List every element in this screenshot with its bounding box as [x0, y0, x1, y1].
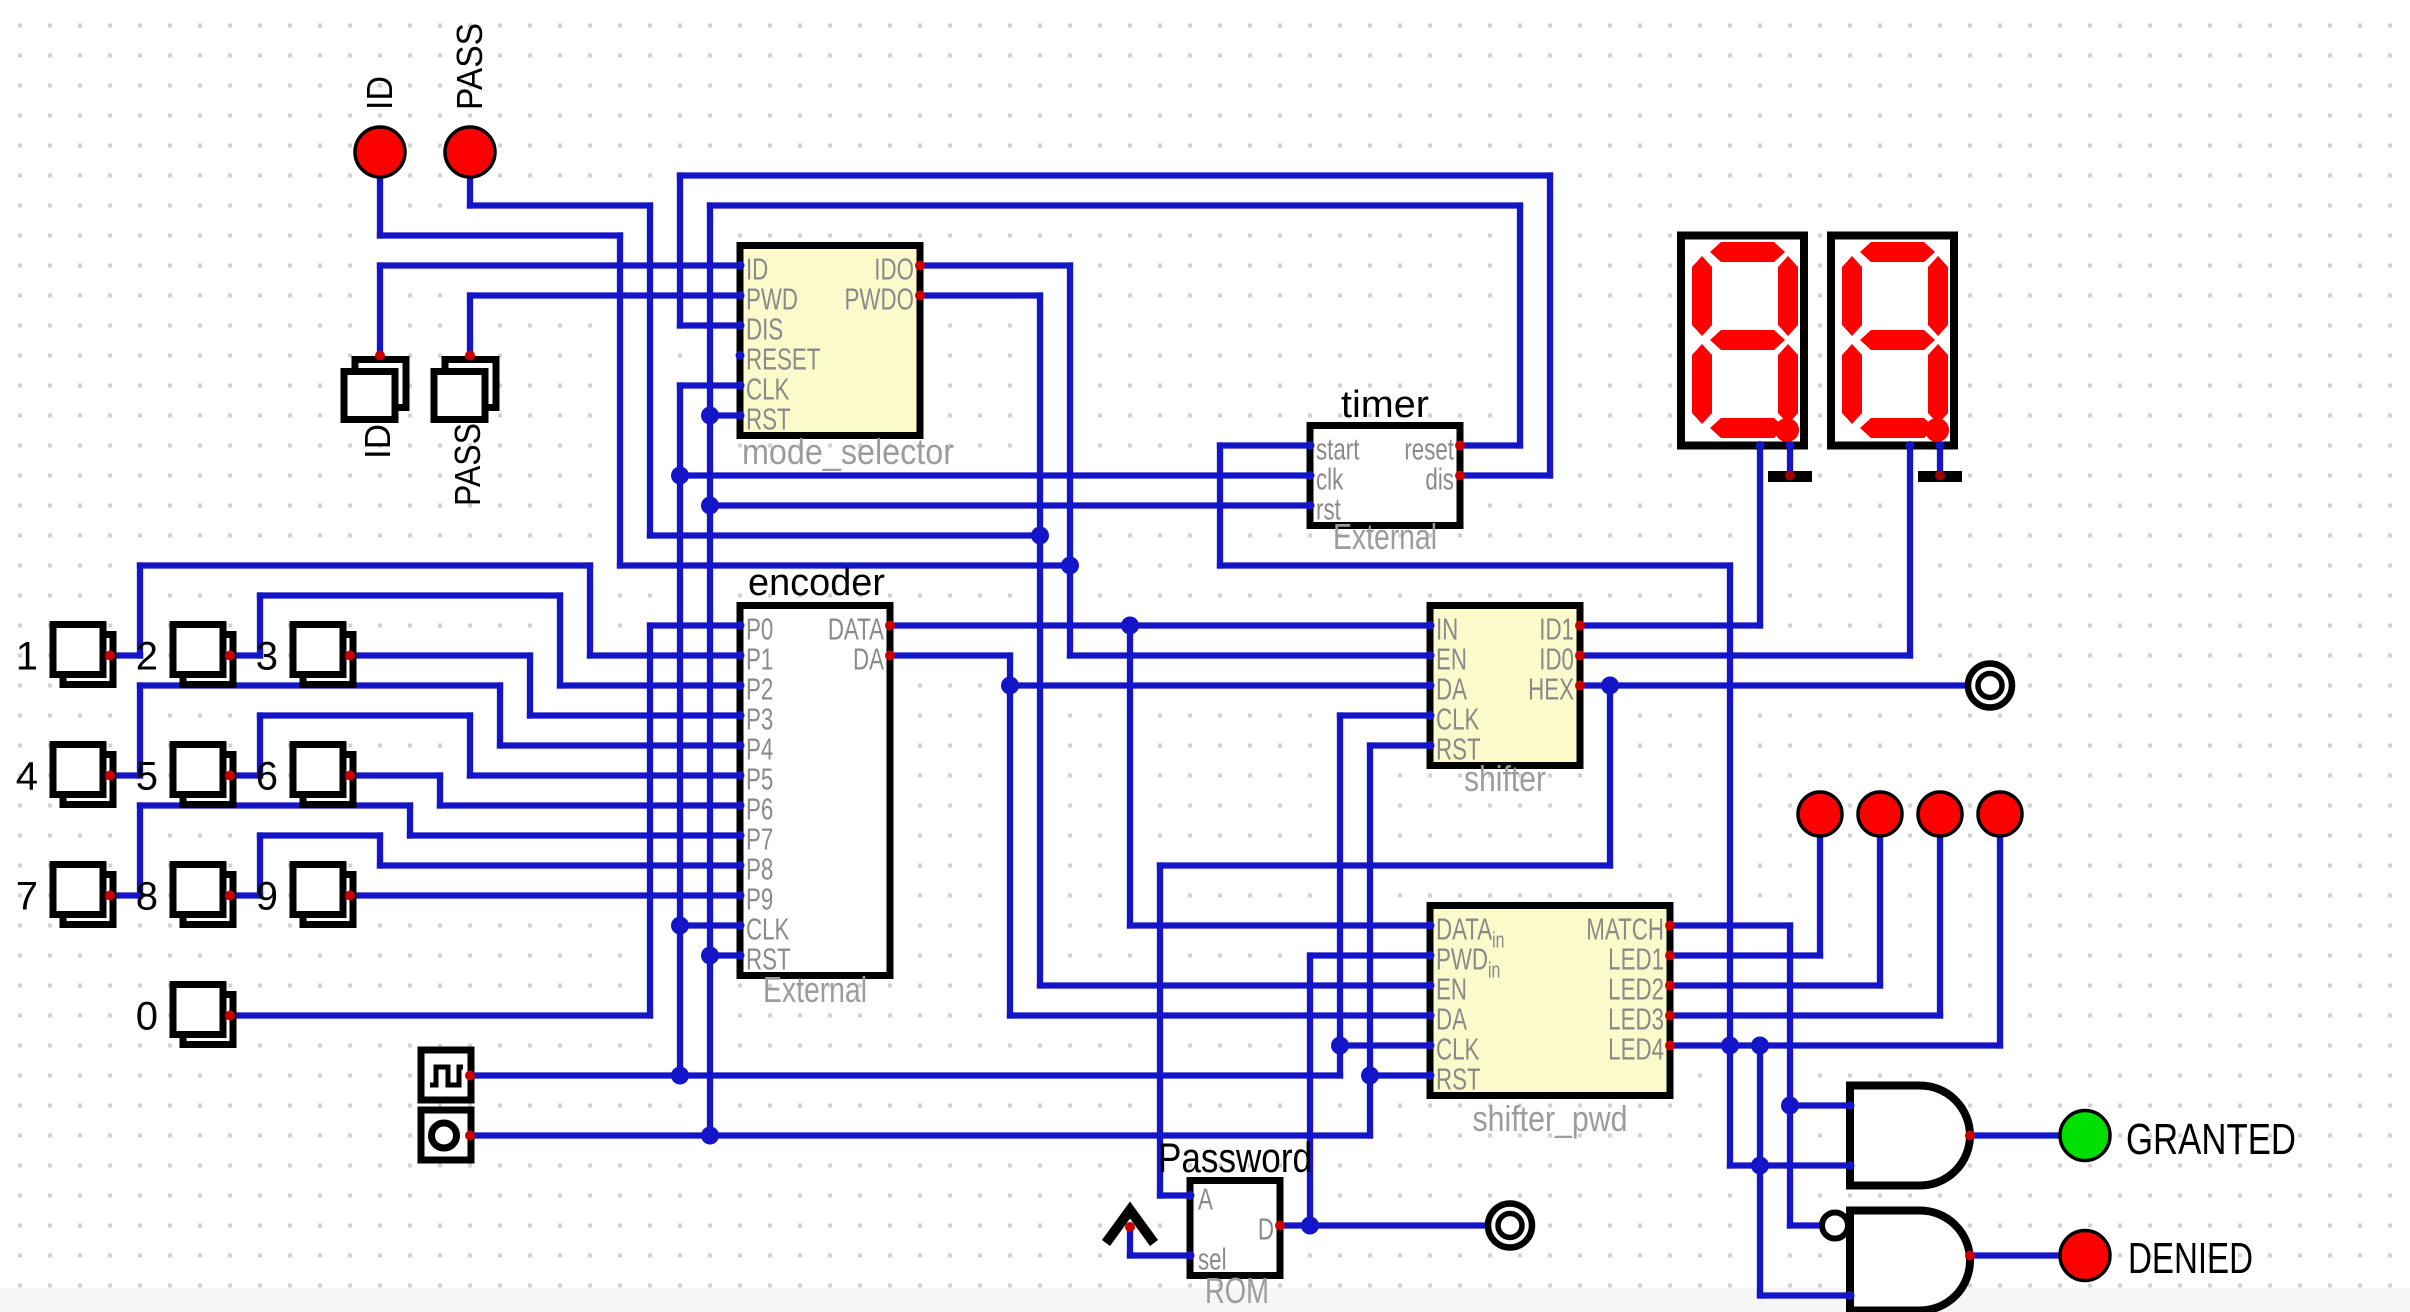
svg-text:6: 6 — [256, 755, 278, 799]
wire net shifter.ID1 to 7seg1 — [1580, 446, 1760, 626]
probe HEX — [1968, 664, 2012, 708]
wire net LED3 — [1670, 838, 1940, 1115]
wire net CLK (clock to all CLK pins) — [470, 386, 1430, 1085]
reset button input O — [421, 1110, 471, 1160]
svg-text:timer: timer — [1341, 384, 1429, 426]
wire net ROM.D to shifter_pwd.PWDin and probe — [1280, 956, 1486, 1226]
clock input — [421, 1050, 471, 1100]
button 1 — [53, 625, 113, 685]
button 5 — [173, 745, 233, 805]
wire net button 8 to encoder.P8 — [230, 836, 740, 896]
block shifter_pwd — [1430, 906, 1670, 1096]
wire net LED1 — [1670, 838, 1820, 956]
wire net button 7 to encoder.P7 — [110, 806, 740, 896]
svg-text:External: External — [1333, 516, 1437, 557]
LED1 lamp — [1798, 792, 1842, 836]
svg-text:PWDO: PWDO — [845, 282, 914, 316]
svg-text:DA: DA — [853, 642, 884, 676]
button 8 — [173, 865, 233, 925]
AND gate U2 (DENIED, inverted input) — [1850, 1211, 1970, 1311]
button 0 — [173, 985, 233, 1045]
svg-text:shifter_pwd: shifter_pwd — [1473, 1098, 1628, 1139]
block shifter — [1430, 606, 1580, 766]
wire net gate outputs to GRANTED/DENIED lamps — [1970, 1136, 2060, 1256]
VDD supply arrow — [1106, 1210, 1154, 1243]
LED ID output lamp — [355, 127, 405, 177]
wire net IDO / ID lamp — [380, 176, 1430, 656]
block timer (External) — [1310, 426, 1460, 526]
svg-text:9: 9 — [256, 875, 278, 919]
button 4 — [53, 745, 113, 805]
button 3 — [293, 625, 353, 685]
wire net button PASS to mode_selector.PWD — [470, 296, 740, 356]
svg-text:External: External — [763, 969, 867, 1010]
wire net 7seg decimal points to ground — [1790, 446, 1940, 472]
svg-text:GRANTED: GRANTED — [2126, 1115, 2296, 1164]
svg-text:PASS: PASS — [447, 423, 488, 506]
wire net shifter.HEX to probe and ROM.A — [1160, 677, 1966, 1196]
LED2 lamp — [1858, 792, 1902, 836]
button PASS — [434, 360, 496, 420]
button 6 — [293, 745, 353, 805]
wire net DIS to timer.dis — [680, 176, 1550, 476]
svg-text:ID: ID — [357, 424, 398, 459]
LED GRANTED — [2060, 1111, 2110, 1161]
svg-text:mode_selector: mode_selector — [742, 431, 954, 472]
svg-text:1: 1 — [16, 635, 38, 679]
svg-text:A: A — [1198, 1182, 1213, 1216]
AND gate U1 (GRANTED) — [1850, 1086, 1970, 1186]
svg-text:3: 3 — [256, 635, 278, 679]
LED PASS output lamp — [445, 127, 495, 177]
wire net shifter.ID0 to 7seg2 — [1580, 446, 1910, 656]
wire net button 4 to encoder.P4 — [110, 686, 740, 776]
svg-text:0: 0 — [136, 995, 158, 1039]
wire net button 1 to encoder.P1 — [110, 566, 740, 656]
block encoder (External) — [740, 606, 890, 976]
7-segment display 2 — [1831, 236, 1954, 446]
button 7 — [53, 865, 113, 925]
wire net button 2 to encoder.P2 — [230, 596, 740, 686]
wire net RESET (O button to all RST pins) — [470, 206, 1520, 1145]
wire net button 3 to encoder.P3 — [350, 656, 740, 716]
wire net button 9 to encoder.P9 — [350, 892, 740, 898]
wire net button 0 to encoder.P0 — [230, 626, 740, 1016]
ground symbol — [1918, 471, 1962, 482]
svg-text:shifter: shifter — [1464, 758, 1546, 799]
svg-text:ID: ID — [359, 76, 400, 110]
svg-text:encoder: encoder — [748, 562, 885, 604]
svg-text:D: D — [1258, 1212, 1274, 1246]
svg-text:LED4: LED4 — [1608, 1032, 1664, 1066]
wire net timer.start / LED4 / gate inputs — [1220, 446, 2000, 1296]
svg-text:DENIED: DENIED — [2128, 1234, 2253, 1283]
probe D — [1488, 1204, 1532, 1248]
wire net encoder.DATA to shifter.IN and shifter_pwd.DATAin — [890, 626, 1430, 926]
svg-text:5: 5 — [136, 755, 158, 799]
wire net VDD to ROM.sel — [1130, 1217, 1319, 1256]
wire net button ID to mode_selector.ID — [380, 266, 740, 356]
wire net button 6 to encoder.P6 — [350, 776, 740, 806]
wire net MATCH to AND gates — [1670, 926, 1850, 1226]
svg-text:dis: dis — [1425, 462, 1454, 496]
svg-text:2: 2 — [136, 635, 158, 679]
block mode_selector — [740, 246, 920, 436]
svg-text:PASS: PASS — [449, 23, 490, 110]
input pin dots (blue) — [736, 261, 1945, 1300]
wire net LED2 — [1670, 838, 1880, 986]
svg-text:RST: RST — [1436, 1062, 1481, 1096]
svg-text:4: 4 — [16, 755, 38, 799]
svg-text:Password: Password — [1158, 1134, 1312, 1181]
svg-text:7: 7 — [16, 875, 38, 919]
ground symbol — [1768, 471, 1812, 482]
button 9 — [293, 865, 353, 925]
wire net PWDO / PASS lamp — [470, 176, 1430, 986]
block Password ROM — [1190, 1181, 1280, 1276]
svg-text:ROM: ROM — [1205, 1270, 1269, 1311]
svg-text:HEX: HEX — [1528, 672, 1574, 706]
button 2 — [173, 625, 233, 685]
7-segment display 1 — [1681, 236, 1804, 446]
button ID — [344, 360, 406, 420]
wire net encoder.DA to shifter.DA and shifter_pwd.DA — [890, 617, 1430, 1016]
wire net button 5 to encoder.P5 — [230, 716, 740, 776]
LED DENIED — [2060, 1231, 2110, 1281]
LED4 lamp — [1978, 792, 2022, 836]
svg-text:8: 8 — [136, 875, 158, 919]
LED3 lamp — [1918, 792, 1962, 836]
output pin dots (red) — [105, 261, 1975, 1261]
